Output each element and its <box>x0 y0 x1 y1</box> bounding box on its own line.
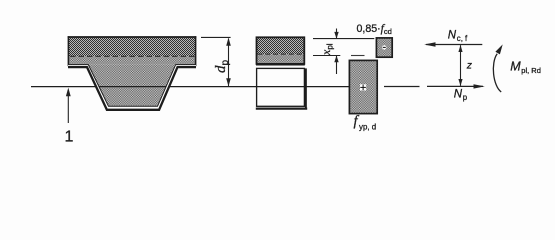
svg-text:dp: dp <box>213 60 231 74</box>
svg-text:z: z <box>466 60 473 72</box>
svg-text:xpl: xpl <box>319 43 335 56</box>
svg-text:M: M <box>510 59 521 73</box>
svg-text:p: p <box>463 93 468 102</box>
svg-text:1: 1 <box>65 129 74 146</box>
svg-text:c, f: c, f <box>457 34 468 43</box>
svg-text:N: N <box>454 89 463 101</box>
svg-text:0,85·fcd: 0,85·fcd <box>357 23 392 36</box>
svg-text:pl, Rd: pl, Rd <box>521 66 541 75</box>
svg-text:N: N <box>448 30 457 42</box>
svg-text:yp, d: yp, d <box>359 123 376 132</box>
